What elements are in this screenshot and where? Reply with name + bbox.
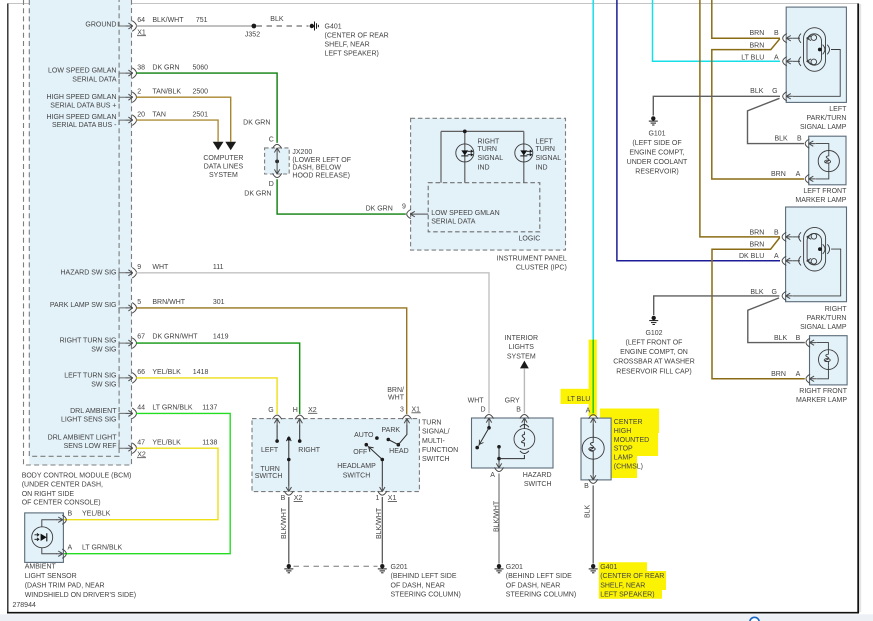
svg-text:PARK LAMP SW SIG: PARK LAMP SW SIG xyxy=(50,302,117,309)
svg-text:66: 66 xyxy=(137,369,145,376)
svg-text:BRN: BRN xyxy=(750,242,765,249)
svg-text:SHELF, NEAR: SHELF, NEAR xyxy=(600,582,645,589)
svg-text:G201: G201 xyxy=(391,564,408,571)
wire LT BLU to left lamp pin A xyxy=(653,0,781,61)
ground G101 xyxy=(649,116,658,125)
wire BLK/WHT from pin B to G201 xyxy=(288,497,290,564)
svg-text:BODY CONTROL MODULE (BCM): BODY CONTROL MODULE (BCM) xyxy=(22,472,132,479)
pin 47 xyxy=(126,443,137,454)
svg-text:TURN: TURN xyxy=(478,146,497,153)
svg-text:H: H xyxy=(293,407,298,414)
X1 X2 underlines xyxy=(137,35,146,37)
pin B xyxy=(805,139,815,148)
pin 64 xyxy=(126,21,137,32)
svg-text:RIGHT TURN SIG: RIGHT TURN SIG xyxy=(60,338,117,345)
svg-text:TURN: TURN xyxy=(536,146,555,153)
wire BLK/WHT 751 xyxy=(136,25,254,27)
BCM inner dashed box xyxy=(29,0,119,456)
svg-text:DRL AMBIENT: DRL AMBIENT xyxy=(70,408,117,415)
BCM left pin labels xyxy=(46,21,117,450)
svg-text:B: B xyxy=(516,407,521,414)
svg-text:9: 9 xyxy=(402,203,406,210)
wire GRY xyxy=(523,368,525,413)
svg-text:1418: 1418 xyxy=(193,369,209,376)
svg-text:BLK/WHT: BLK/WHT xyxy=(376,507,383,539)
svg-text:HIGH: HIGH xyxy=(614,428,632,435)
svg-text:LEFT TURN SIG: LEFT TURN SIG xyxy=(64,373,116,380)
svg-text:TAN/BLK: TAN/BLK xyxy=(152,88,181,95)
splice J352 xyxy=(252,24,257,29)
svg-text:DK GRN: DK GRN xyxy=(152,64,179,71)
svg-text:G: G xyxy=(268,407,273,414)
svg-text:MULTI-: MULTI- xyxy=(422,438,445,445)
svg-text:20: 20 xyxy=(137,111,145,118)
switch caption xyxy=(422,419,458,463)
svg-text:DK GRN: DK GRN xyxy=(244,190,271,197)
sensor caption xyxy=(25,563,136,599)
svg-text:HOOD RELEASE): HOOD RELEASE) xyxy=(292,172,350,179)
svg-text:(BEHIND LEFT SIDE: (BEHIND LEFT SIDE xyxy=(391,573,457,580)
svg-text:CROSSBAR AT WASHER: CROSSBAR AT WASHER xyxy=(613,359,695,366)
svg-text:WHT: WHT xyxy=(468,397,485,404)
dual filament bulb xyxy=(793,28,840,97)
pin 1 bottom xyxy=(378,485,387,495)
svg-text:STEERING COLUMN): STEERING COLUMN) xyxy=(506,592,576,599)
wire BRN branch from left pin B to left marker pin A xyxy=(712,39,804,179)
wire LT BLU vertical (cyan above highlight) xyxy=(592,0,594,340)
svg-text:G: G xyxy=(771,289,776,296)
wire BLK dashed to G401 xyxy=(257,25,309,27)
wire BLK from pin G to G102 xyxy=(654,296,780,315)
svg-text:IND: IND xyxy=(478,164,490,171)
switch box xyxy=(252,419,419,492)
svg-text:YEL/BLK: YEL/BLK xyxy=(152,369,181,376)
node COMPUTER DATA LINES SYSTEM xyxy=(203,155,243,179)
svg-text:LOW SPEED GMLAN: LOW SPEED GMLAN xyxy=(48,67,116,74)
svg-text:CLUSTER (IPC): CLUSTER (IPC) xyxy=(516,264,567,271)
BCM blue fill xyxy=(29,0,131,465)
svg-text:STOP: STOP xyxy=(614,446,633,453)
svg-text:ON RIGHT SIDE: ON RIGHT SIDE xyxy=(22,491,75,498)
svg-text:SIGNAL LAMP: SIGNAL LAMP xyxy=(800,124,847,131)
svg-text:LEFT SPEAKER): LEFT SPEAKER) xyxy=(325,50,379,57)
indicator lamp LEFT TURN SIGNAL IND xyxy=(515,144,533,162)
svg-text:HIGH SPEED GMLAN: HIGH SPEED GMLAN xyxy=(46,94,116,101)
svg-text:X2: X2 xyxy=(308,407,317,414)
svg-text:LAMP: LAMP xyxy=(614,455,633,462)
svg-text:ENGINE COMPT,: ENGINE COMPT, xyxy=(629,149,684,156)
svg-text:HIGH SPEED GMLAN: HIGH SPEED GMLAN xyxy=(46,114,116,121)
svg-text:J352: J352 xyxy=(245,31,260,38)
svg-text:MARKER LAMP: MARKER LAMP xyxy=(795,197,846,204)
ground G201 (left) xyxy=(284,564,293,573)
svg-text:RIGHT FRONT: RIGHT FRONT xyxy=(799,388,847,395)
svg-text:BRN: BRN xyxy=(750,43,765,50)
CHMSL box xyxy=(581,418,611,480)
arrow up to interior lights xyxy=(520,361,529,369)
svg-text:RIGHT: RIGHT xyxy=(478,139,501,146)
svg-text:(LEFT SIDE OF: (LEFT SIDE OF xyxy=(632,140,681,147)
svg-text:BLK/WHT: BLK/WHT xyxy=(152,17,184,24)
svg-text:WHT: WHT xyxy=(388,395,405,402)
svg-text:GRY: GRY xyxy=(505,397,520,404)
svg-text:LEFT FRONT: LEFT FRONT xyxy=(803,188,847,195)
svg-text:B: B xyxy=(774,229,779,236)
svg-text:X2: X2 xyxy=(137,451,146,458)
svg-text:LEFT: LEFT xyxy=(829,106,847,113)
pin B xyxy=(782,232,792,241)
pin A xyxy=(805,174,815,183)
indicator lamp RIGHT TURN SIGNAL IND xyxy=(456,144,474,162)
pin G xyxy=(273,415,282,425)
svg-text:IND: IND xyxy=(536,164,548,171)
svg-text:TAN: TAN xyxy=(152,111,165,118)
svg-text:SERIAL DATA BUS -: SERIAL DATA BUS - xyxy=(52,122,117,129)
turn switch contacts xyxy=(277,425,300,486)
svg-text:BLK/WHT: BLK/WHT xyxy=(494,500,501,532)
pin B xyxy=(520,415,529,425)
svg-text:A: A xyxy=(774,253,779,260)
svg-text:OF DASH, NEAR: OF DASH, NEAR xyxy=(391,582,445,589)
svg-text:BLK: BLK xyxy=(774,335,788,342)
IPC internal wiring xyxy=(441,131,524,182)
svg-text:SENS LOW REF: SENS LOW REF xyxy=(64,443,117,450)
JX200 internal junction xyxy=(275,160,279,164)
svg-text:DK GRN/WHT: DK GRN/WHT xyxy=(152,333,198,340)
svg-text:GROUND: GROUND xyxy=(85,21,116,28)
svg-text:LOW SPEED GMLAN: LOW SPEED GMLAN xyxy=(431,210,499,217)
svg-text:TURN: TURN xyxy=(422,419,441,426)
pin 5 xyxy=(126,303,137,314)
diagram frame bottom border xyxy=(7,612,859,614)
arrow to computer data lines (right) xyxy=(225,142,236,150)
lamp box xyxy=(786,7,846,102)
highlight G401 caption xyxy=(599,562,666,599)
svg-text:44: 44 xyxy=(137,405,145,412)
svg-text:JX200: JX200 xyxy=(292,149,312,156)
diagram frame left border xyxy=(7,4,9,614)
svg-text:SIGNAL LAMP: SIGNAL LAMP xyxy=(800,324,847,331)
highlight CHMSL caption xyxy=(600,409,659,479)
CHMSL caption xyxy=(614,419,649,471)
hazard indicator bulb xyxy=(523,425,525,430)
marker box xyxy=(810,336,848,385)
svg-text:B: B xyxy=(281,495,286,502)
svg-text:5060: 5060 xyxy=(193,64,209,71)
wire TAN/BLK 2500 xyxy=(136,97,231,142)
svg-text:111: 111 xyxy=(213,264,224,271)
svg-text:SW SIG: SW SIG xyxy=(91,346,116,353)
arrow to computer data lines (left) xyxy=(213,142,224,150)
node G401 caption xyxy=(325,23,389,57)
marker bulb xyxy=(815,144,839,179)
svg-text:INTERIOR: INTERIOR xyxy=(505,335,538,342)
svg-text:67: 67 xyxy=(137,333,145,340)
pin B xyxy=(806,338,816,347)
svg-text:X2: X2 xyxy=(294,495,303,502)
svg-text:DK GRN: DK GRN xyxy=(366,205,393,212)
BCM pin arcs + label arrows xyxy=(118,22,126,448)
svg-text:OF DASH, NEAR: OF DASH, NEAR xyxy=(506,582,560,589)
svg-text:301: 301 xyxy=(213,299,225,306)
svg-text:A: A xyxy=(586,408,591,415)
wire BRN left-circuit to left lamp pin B xyxy=(712,0,780,38)
pin A xyxy=(589,415,598,425)
svg-text:G201: G201 xyxy=(506,564,523,571)
sensor pin A xyxy=(56,549,66,558)
ground G102 xyxy=(649,316,658,325)
photodiode circle xyxy=(32,527,53,548)
wire DK GRN to IPC xyxy=(277,179,406,214)
CHMSL bulb xyxy=(592,425,594,438)
highlight wire strip xyxy=(589,340,597,417)
ground G201 (hazard) xyxy=(495,564,504,573)
svg-text:STEERING COLUMN): STEERING COLUMN) xyxy=(391,592,461,599)
svg-text:LEFT SPEAKER): LEFT SPEAKER) xyxy=(600,592,654,599)
marker box xyxy=(809,136,846,185)
svg-text:MARKER LAMP: MARKER LAMP xyxy=(796,397,847,404)
pin 38 xyxy=(126,68,137,79)
svg-text:AUTO: AUTO xyxy=(354,432,374,439)
svg-text:BLK: BLK xyxy=(584,504,591,518)
right scrollbar shade xyxy=(859,4,861,612)
svg-text:BRN/WHT: BRN/WHT xyxy=(152,299,185,306)
wire DK GRN/WHT 1419 xyxy=(136,343,300,414)
svg-text:BLK: BLK xyxy=(270,16,284,23)
svg-text:PARK/TURN: PARK/TURN xyxy=(806,115,846,122)
svg-text:B: B xyxy=(797,135,802,142)
JX200 caption xyxy=(292,149,351,180)
svg-text:SWITCH: SWITCH xyxy=(422,456,450,463)
svg-text:OFF: OFF xyxy=(353,449,367,456)
svg-text:BLK: BLK xyxy=(774,135,788,142)
svg-text:B: B xyxy=(67,510,72,517)
LOGIC dashed box xyxy=(428,183,540,232)
svg-text:9: 9 xyxy=(137,264,141,271)
pin G xyxy=(783,92,793,101)
wire BLK CHMSL to G401 xyxy=(592,485,594,563)
wire BLK branch to right marker pin B xyxy=(748,298,805,343)
svg-text:LT GRN/BLK: LT GRN/BLK xyxy=(152,405,193,412)
pin A xyxy=(783,57,793,66)
IPC box xyxy=(411,118,566,250)
pin B bottom xyxy=(589,473,598,483)
svg-text:(DASH TRIM PAD, NEAR: (DASH TRIM PAD, NEAR xyxy=(25,583,105,590)
svg-text:SIGNAL/: SIGNAL/ xyxy=(422,429,450,436)
lamp box xyxy=(786,207,847,302)
wire DK GRN horizontal xyxy=(136,73,277,143)
svg-text:YEL/BLK: YEL/BLK xyxy=(82,510,111,517)
svg-text:278944: 278944 xyxy=(13,602,36,609)
svg-text:C: C xyxy=(269,137,274,144)
highlight LT BLU label xyxy=(561,389,592,404)
svg-text:SIGNAL: SIGNAL xyxy=(536,155,562,162)
svg-text:LIGHT SENSOR: LIGHT SENSOR xyxy=(25,573,77,580)
svg-text:1138: 1138 xyxy=(202,440,217,447)
diagram frame right border xyxy=(857,4,859,614)
svg-text:DK BLU: DK BLU xyxy=(739,253,764,260)
svg-text:LIGHTS: LIGHTS xyxy=(509,344,535,351)
svg-text:G: G xyxy=(772,88,777,95)
svg-text:(CENTER OF REAR: (CENTER OF REAR xyxy=(325,33,389,40)
svg-text:A: A xyxy=(490,472,495,479)
wire WHT 111 xyxy=(136,273,489,414)
svg-text:BRN/: BRN/ xyxy=(387,387,404,394)
svg-text:D: D xyxy=(269,181,274,188)
pin D xyxy=(484,415,493,425)
svg-text:1: 1 xyxy=(376,495,380,502)
svg-text:WINDSHIELD ON DRIVER'S SIDE): WINDSHIELD ON DRIVER'S SIDE) xyxy=(25,592,136,599)
svg-text:G401: G401 xyxy=(325,23,342,30)
svg-text:2501: 2501 xyxy=(193,111,209,118)
svg-text:DASH, BELOW: DASH, BELOW xyxy=(292,165,341,172)
wire BLK/WHT from pin 1 to G201 xyxy=(381,497,383,564)
bottom toolbar band xyxy=(0,614,873,621)
svg-text:B: B xyxy=(796,335,801,342)
svg-text:(BEHIND LEFT SIDE: (BEHIND LEFT SIDE xyxy=(506,573,572,580)
svg-text:38: 38 xyxy=(137,64,145,71)
svg-text:COMPUTER: COMPUTER xyxy=(203,155,243,162)
pin A xyxy=(806,374,816,383)
svg-text:SERIAL DATA BUS +: SERIAL DATA BUS + xyxy=(50,103,116,110)
svg-text:G401: G401 xyxy=(600,564,617,571)
hazard box xyxy=(472,418,554,468)
svg-text:SYSTEM: SYSTEM xyxy=(209,172,238,179)
svg-text:FUNCTION: FUNCTION xyxy=(422,447,458,454)
svg-text:SHELF, NEAR: SHELF, NEAR xyxy=(325,42,370,49)
blue help icon (cut off) xyxy=(750,617,759,621)
svg-text:RIGHT: RIGHT xyxy=(825,306,848,313)
wire BRN right-circuit vertical xyxy=(700,0,780,237)
pin 44 xyxy=(126,408,137,419)
svg-text:PARK/TURN: PARK/TURN xyxy=(807,315,847,322)
svg-text:64: 64 xyxy=(137,17,145,24)
wire YEL/BLK 1418 xyxy=(136,378,277,414)
svg-text:X1: X1 xyxy=(412,406,421,413)
svg-text:LEFT: LEFT xyxy=(536,139,554,146)
svg-text:(LOWER LEFT OF: (LOWER LEFT OF xyxy=(292,157,351,164)
svg-text:SYSTEM: SYSTEM xyxy=(507,353,536,360)
wire BLK branch to left marker pin B xyxy=(748,98,805,143)
svg-text:1419: 1419 xyxy=(213,333,229,340)
wire BRN/WHT 301 xyxy=(136,308,407,414)
svg-text:A: A xyxy=(796,171,801,178)
svg-text:UNDER COOLANT: UNDER COOLANT xyxy=(627,159,688,166)
svg-text:INSTRUMENT PANEL: INSTRUMENT PANEL xyxy=(497,255,567,262)
pin 3 xyxy=(402,415,411,425)
hazard switch contacts xyxy=(488,425,490,427)
svg-text:1137: 1137 xyxy=(202,405,217,412)
svg-text:SWITCH: SWITCH xyxy=(255,473,283,480)
svg-text:DATA LINES: DATA LINES xyxy=(204,164,244,171)
svg-text:DRL AMBIENT LIGHT: DRL AMBIENT LIGHT xyxy=(48,434,118,441)
BCM pin number / wire color / circuit labels xyxy=(137,17,228,458)
sensor pin B xyxy=(56,515,66,524)
svg-text:AMBIENT: AMBIENT xyxy=(25,563,57,570)
svg-text:MOUNTED: MOUNTED xyxy=(614,437,649,444)
svg-text:LT BLU: LT BLU xyxy=(567,396,590,403)
marker bulb xyxy=(816,343,838,379)
pin B bottom xyxy=(284,485,293,495)
svg-text:HAZARD: HAZARD xyxy=(523,472,552,479)
svg-text:HEADLAMP: HEADLAMP xyxy=(337,463,376,470)
svg-text:B: B xyxy=(584,483,589,490)
svg-text:ENGINE COMPT, ON: ENGINE COMPT, ON xyxy=(620,349,688,356)
wire BRN branch from right pin B to right marker pin A xyxy=(712,238,805,379)
svg-text:WHT: WHT xyxy=(152,264,169,271)
wire BLK from pin G to G101 xyxy=(653,96,780,115)
svg-text:SW SIG: SW SIG xyxy=(91,381,116,388)
svg-text:(CENTER OF REAR: (CENTER OF REAR xyxy=(600,573,664,580)
pin B xyxy=(783,34,793,43)
svg-text:YEL/BLK: YEL/BLK xyxy=(152,440,181,447)
svg-text:RESERVOIR): RESERVOIR) xyxy=(635,168,678,175)
svg-text:LIGHT SENS SIG: LIGHT SENS SIG xyxy=(61,417,117,424)
svg-text:D: D xyxy=(480,407,485,414)
sensor internal wiring xyxy=(42,520,57,554)
pin 2 xyxy=(126,92,137,103)
pin 20 xyxy=(126,115,137,126)
svg-text:SERIAL DATA: SERIAL DATA xyxy=(431,219,476,226)
svg-text:LOGIC: LOGIC xyxy=(519,236,541,243)
svg-text:3: 3 xyxy=(400,406,404,413)
pin A bottom xyxy=(494,462,503,472)
diagram frame top border xyxy=(8,3,859,5)
wire LT BLU under highlight (renders green) xyxy=(592,340,594,414)
svg-text:OF CENTER CONSOLE): OF CENTER CONSOLE) xyxy=(22,500,101,507)
pin 66 xyxy=(126,373,137,384)
svg-text:B: B xyxy=(774,30,779,37)
wire YEL/BLK 1138 xyxy=(64,448,218,520)
wire BLK/WHT hazard to G201 xyxy=(498,474,500,564)
svg-text:LT BLU: LT BLU xyxy=(741,55,764,62)
svg-text:TURN: TURN xyxy=(260,466,279,473)
labels for indicators xyxy=(478,139,562,172)
sensor box xyxy=(25,513,64,563)
svg-text:RIGHT: RIGHT xyxy=(298,447,321,454)
svg-text:(UNDER CENTER DASH,: (UNDER CENTER DASH, xyxy=(22,482,103,489)
node G201 caption xyxy=(391,564,461,599)
svg-text:47: 47 xyxy=(137,440,145,447)
svg-text:LT GRN/BLK: LT GRN/BLK xyxy=(82,544,123,551)
pin 67 xyxy=(126,338,137,349)
svg-text:LEFT: LEFT xyxy=(261,447,279,454)
svg-text:2500: 2500 xyxy=(193,88,209,95)
dual filament bulb xyxy=(792,227,841,296)
svg-text:DK GRN: DK GRN xyxy=(243,119,270,126)
wire DK BLU vertical to right lamp pin A xyxy=(617,0,780,261)
svg-text:A: A xyxy=(67,544,72,551)
ground G401 splice symbol xyxy=(310,22,319,31)
svg-text:CENTER: CENTER xyxy=(614,419,643,426)
ground G401 xyxy=(589,564,598,573)
svg-text:BRN: BRN xyxy=(771,171,786,178)
svg-text:SERIAL DATA: SERIAL DATA xyxy=(72,76,117,83)
svg-text:G101: G101 xyxy=(648,130,665,137)
svg-text:HEAD: HEAD xyxy=(389,448,408,455)
wire LT GRN/BLK 1137 xyxy=(64,413,230,553)
pin G xyxy=(782,291,792,300)
svg-text:BRN: BRN xyxy=(750,30,765,37)
svg-text:BLK: BLK xyxy=(750,88,764,95)
svg-text:RESERVOIR FILL CAP): RESERVOIR FILL CAP) xyxy=(616,368,691,375)
svg-text:BLK: BLK xyxy=(750,289,764,296)
svg-text:5: 5 xyxy=(137,299,141,306)
svg-text:(CHMSL): (CHMSL) xyxy=(614,464,643,471)
pin 9 xyxy=(126,268,137,279)
wire TAN 2501 xyxy=(136,120,218,142)
IPC pin 9 xyxy=(407,210,417,219)
